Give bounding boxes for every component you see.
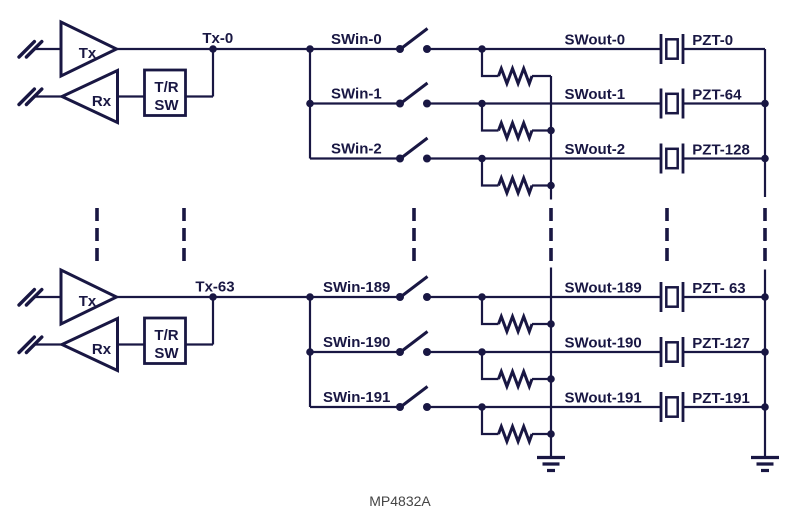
svg-text:MP4832A: MP4832A [369, 493, 431, 509]
switch SWin-191: right contact [423, 403, 431, 411]
resistor R SWout-190 to bus: lead to bus [532, 378, 551, 380]
svg-text:Tx: Tx [79, 45, 97, 62]
svg-text:SWin-191: SWin-191 [323, 389, 390, 406]
wire: Rx-63 input from T/R switch [118, 343, 145, 345]
junction dot: bus / R2 junction [547, 182, 555, 190]
junction dot: switch output node SWout-189 [478, 293, 486, 301]
svg-text:PZT-191: PZT-191 [692, 390, 750, 407]
piezo transducer PZT-128: crystal body [666, 149, 677, 168]
junction dot: node Tx-63 [209, 293, 217, 301]
svg-text:SWin-190: SWin-190 [323, 334, 390, 351]
wire: Rx-63 amplifier output [35, 343, 62, 345]
piezo transducer PZT-128: right plate [682, 144, 685, 174]
switch SWin-2: right contact [423, 155, 431, 163]
wire: vertical to Tx-0 node [212, 49, 214, 97]
switch SWin-189: left contact [396, 293, 404, 301]
svg-text:PZT- 63: PZT- 63 [692, 280, 745, 297]
wire: Tx-63 amplifier input [35, 296, 61, 298]
amplifier Tx-0 (triangle) [61, 22, 117, 76]
wire: SWin-2 feed [310, 157, 400, 159]
switch SWin-191: left contact [396, 403, 404, 411]
wire: SWin-1 switch output [427, 102, 482, 104]
T/R switch box unit 0 [145, 70, 186, 116]
resistor common bus (bottom segment) [550, 268, 552, 458]
switch SWin-2: left contact [396, 155, 404, 163]
svg-text:SWin-0: SWin-0 [331, 31, 382, 48]
wire: SWout-2 line to transducer [482, 157, 661, 159]
svg-text:SWout-2: SWout-2 [565, 141, 626, 158]
piezo transducer PZT-191: right plate [682, 392, 685, 422]
continuation dashes: T/R SW column [182, 208, 186, 261]
junction dot: bus / R189 junction [547, 320, 555, 328]
svg-text:SWout-0: SWout-0 [565, 32, 626, 49]
resistor R SWout-1 to bus: lead to bus [532, 129, 551, 131]
piezo transducer PZT-64: right plate [682, 89, 685, 119]
switch SWin-189: right contact [423, 293, 431, 301]
junction dot: switch output node SWout-2 [478, 155, 486, 163]
wire: PZT-64 to return bus [683, 102, 765, 104]
svg-text:Tx-0: Tx-0 [202, 30, 233, 47]
svg-text:PZT-128: PZT-128 [692, 142, 750, 159]
switch SWin-2: lever arm [401, 138, 428, 159]
switch SWin-189: lever arm [401, 277, 428, 298]
svg-text:T/R: T/R [154, 79, 178, 96]
resistor R SWout-0 to bus: zigzag body [499, 69, 533, 84]
ground symbol at resistor bus [537, 458, 565, 471]
resistor R SWout-191 to bus: tap wire from node down [482, 407, 499, 434]
resistor R SWout-2 to bus: zigzag body [499, 178, 533, 193]
wire: vertical to Tx-63 node [212, 297, 214, 345]
resistor R SWout-191 to bus: zigzag body [499, 427, 533, 442]
switch SWin-0: lever arm [401, 29, 428, 50]
junction dot: junction row SWin-1 [306, 100, 314, 108]
switch SWin-190: right contact [423, 348, 431, 356]
wire: SWin-189 switch output [427, 296, 482, 298]
svg-text:Tx: Tx [79, 293, 97, 310]
svg-text:SWout-1: SWout-1 [565, 86, 626, 103]
wire: SWin-0 feed from Tx output [117, 48, 401, 50]
resistor R SWout-1 to bus: zigzag body [499, 123, 533, 138]
continuation dashes: resistor bus [549, 208, 553, 261]
switch SWin-0: left contact [396, 45, 404, 53]
piezo transducer PZT-0: crystal body [666, 39, 677, 58]
piezo transducer PZT-127: left plate [660, 337, 663, 367]
switch SWin-1: lever arm [401, 83, 428, 104]
wire: SWin-1 feed [310, 102, 400, 104]
svg-text:Tx-63: Tx-63 [195, 279, 234, 296]
piezo transducer PZT- 63: left plate [660, 282, 663, 312]
line-break slashes: Tx-0 input [19, 42, 42, 57]
wire: SWin-190 feed [310, 351, 400, 353]
piezo transducer PZT-0: right plate [682, 34, 685, 64]
T/R switch box unit 63 [145, 318, 186, 364]
svg-text:SW: SW [154, 345, 179, 362]
wire: T/R SW 63 to node [186, 343, 214, 345]
continuation dashes: Tx/Rx column [95, 208, 99, 261]
resistor R SWout-1 to bus: tap wire from node down [482, 104, 499, 131]
continuation dashes: switch column [412, 208, 416, 261]
resistor R SWout-190 to bus: zigzag body [499, 372, 533, 387]
switch SWin-0: right contact [423, 45, 431, 53]
resistor R SWout-191 to bus: lead to bus [532, 433, 551, 435]
junction dot: return bus PZT-64 [761, 100, 769, 108]
line-break slashes: Rx-0 output [19, 89, 42, 104]
svg-text:SW: SW [154, 97, 179, 114]
amplifier Tx-63 (triangle) [61, 270, 117, 324]
ground symbol at transducer return bus [751, 458, 779, 471]
piezo transducer PZT-64: crystal body [666, 94, 677, 113]
transducer return bus (bottom segment) [764, 270, 766, 458]
wire: PZT-128 to return bus [683, 157, 765, 159]
transducer return bus (top segment) [764, 49, 766, 197]
junction dot: junction row SWin-189 [306, 293, 314, 301]
wire: SWout-189 line to transducer [482, 296, 661, 298]
junction dot: return bus PZT-63 [761, 293, 769, 301]
piezo transducer PZT- 63: crystal body [666, 287, 677, 306]
wire: SWout-190 line to transducer [482, 351, 661, 353]
piezo transducer PZT-127: right plate [682, 337, 685, 367]
junction dot: junction row SWin-0 [306, 45, 314, 53]
wire: Rx-0 input from T/R switch [118, 95, 145, 97]
svg-text:SWin-2: SWin-2 [331, 141, 382, 158]
switch SWin-1: left contact [396, 100, 404, 108]
piezo transducer PZT- 63: right plate [682, 282, 685, 312]
svg-text:SWin-1: SWin-1 [331, 86, 382, 103]
svg-text:SWout-190: SWout-190 [565, 335, 642, 352]
svg-text:Rx: Rx [92, 341, 112, 358]
resistor R SWout-2 to bus: tap wire from node down [482, 159, 499, 186]
wire: PZT-127 to return bus [683, 351, 765, 353]
resistor R SWout-0 to bus: tap wire from node down [482, 49, 499, 76]
wire: PZT-191 to return bus [683, 406, 765, 408]
resistor common bus (top segment) [550, 76, 552, 200]
wire: SWout-1 line to transducer [482, 102, 661, 104]
line-break slashes: Tx-63 input [19, 290, 42, 305]
junction dot: switch output node SWout-1 [478, 100, 486, 108]
switch SWin-190: lever arm [401, 332, 428, 353]
svg-text:SWout-189: SWout-189 [565, 280, 642, 297]
wire: Rx-0 amplifier output [35, 95, 62, 97]
junction dot: bus / R191 junction [547, 430, 555, 438]
junction dot: bus / R1 junction [547, 127, 555, 135]
wire: SWin-191 switch output [427, 406, 482, 408]
wire: Tx-0 amplifier input [35, 48, 61, 50]
switch SWin-1: right contact [423, 100, 431, 108]
resistor R SWout-190 to bus: tap wire from node down [482, 352, 499, 379]
piezo transducer PZT-127: crystal body [666, 342, 677, 361]
wire: SWin-190 switch output [427, 351, 482, 353]
switch SWin-190: left contact [396, 348, 404, 356]
amplifier Rx-63 (triangle, points left) [62, 319, 118, 371]
junction dot: switch output node SWout-0 [478, 45, 486, 53]
wire: PZT-0 to return bus [683, 48, 765, 50]
svg-text:SWout-191: SWout-191 [565, 390, 642, 407]
switch SWin-191: lever arm [401, 387, 428, 408]
resistor R SWout-189 to bus: lead to bus [532, 323, 551, 325]
junction dot: return bus PZT-191 [761, 403, 769, 411]
svg-text:PZT-127: PZT-127 [692, 335, 750, 352]
continuation dashes: return bus [763, 208, 767, 261]
junction dot: return bus PZT-128 [761, 155, 769, 163]
line-break slashes: Rx-63 output [19, 337, 42, 352]
wire: SWin-0 switch output [427, 48, 482, 50]
resistor R SWout-0 to bus: lead to bus [532, 75, 551, 77]
piezo transducer PZT-191: left plate [660, 392, 663, 422]
resistor R SWout-189 to bus: zigzag body [499, 317, 533, 332]
wire: SWout-191 line to transducer [482, 406, 661, 408]
junction dot: junction row SWin-190 [306, 348, 314, 356]
wire: SWin-191 feed [310, 406, 400, 408]
vertical junction column (bottom) [309, 297, 311, 407]
svg-text:SWin-189: SWin-189 [323, 279, 390, 296]
junction dot: return bus PZT-127 [761, 348, 769, 356]
piezo transducer PZT-128: left plate [660, 144, 663, 174]
resistor R SWout-2 to bus: lead to bus [532, 184, 551, 186]
junction dot: bus / R190 junction [547, 375, 555, 383]
piezo transducer PZT-191: crystal body [666, 397, 677, 416]
wire: T/R SW 0 to node [186, 95, 214, 97]
junction dot: switch output node SWout-191 [478, 403, 486, 411]
piezo transducer PZT-0: left plate [660, 34, 663, 64]
wire: SWin-2 switch output [427, 157, 482, 159]
wire: SWin-189 feed from Tx output [117, 296, 401, 298]
vertical junction column (top) [309, 49, 311, 159]
junction dot: node Tx-0 [209, 45, 217, 53]
wire: SWout-0 line to transducer [482, 48, 661, 50]
piezo transducer PZT-64: left plate [660, 89, 663, 119]
resistor R SWout-189 to bus: tap wire from node down [482, 297, 499, 324]
svg-text:PZT-64: PZT-64 [692, 87, 742, 104]
junction dot: switch output node SWout-190 [478, 348, 486, 356]
amplifier Rx-0 (triangle, points left) [62, 71, 118, 123]
wire: PZT- 63 to return bus [683, 296, 765, 298]
continuation dashes: PZT column [665, 208, 669, 261]
svg-text:Rx: Rx [92, 93, 112, 110]
svg-text:PZT-0: PZT-0 [692, 32, 733, 49]
svg-text:T/R: T/R [154, 327, 178, 344]
